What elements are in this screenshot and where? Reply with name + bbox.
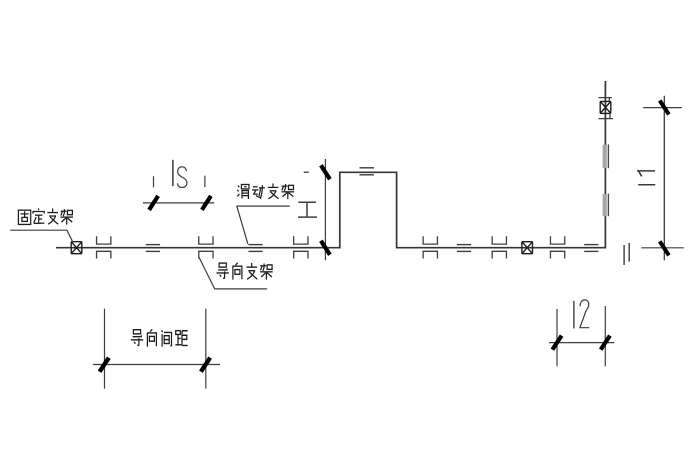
guide support G4 (423, 236, 437, 258)
sleeve mark on riser (lower) (603, 194, 609, 217)
sliding support S5 on loop top (360, 168, 375, 175)
sliding support S3 (457, 245, 471, 252)
sliding support S1 (146, 245, 160, 252)
sliding support S4 (584, 245, 598, 252)
pipe break mark near corner (624, 243, 629, 265)
leader for sliding support label (237, 206, 290, 244)
dimension line (vertical) at loop left (321, 159, 330, 260)
sleeve mark on riser (upper) (603, 144, 609, 168)
guide support G5 (492, 236, 506, 258)
label text 固定支架 (fixed support) (18, 208, 73, 224)
dimension ls: line, ticks, extension dashes (143, 176, 214, 210)
wire: main pipe run with expansion loop and right riser (56, 81, 605, 248)
guide support G1 (97, 236, 111, 258)
leader for fixed support label (10, 230, 73, 242)
label text 滑动支架 (sliding support) (237, 183, 294, 199)
extension dash at loop top (304, 171, 309, 173)
sliding support S2 (248, 245, 262, 252)
guide support G3 (294, 236, 308, 258)
dimension l1 (vertical, right side) (641, 96, 684, 260)
label l2 (574, 300, 589, 329)
label l1 (rotated) (637, 171, 655, 185)
dimension l2: extension lines, line, ticks (549, 306, 614, 366)
label text 导向间距 (guide spacing) (131, 329, 188, 346)
leader for guide support label (199, 257, 267, 289)
anchor (fixed support) F1 on pipe (71, 242, 82, 254)
anchor (fixed support) F3 on riser with brackets (598, 98, 613, 119)
I-beam symbol at loop (298, 202, 317, 217)
label ls (173, 160, 187, 188)
dimension guide-spacing: extension lines, line, ticks (93, 309, 220, 389)
anchor (fixed support) F2 on pipe (522, 242, 533, 254)
guide support G6 (550, 236, 564, 258)
label text 导向支架 (guide support) (217, 263, 273, 280)
guide support G2 (199, 236, 213, 258)
